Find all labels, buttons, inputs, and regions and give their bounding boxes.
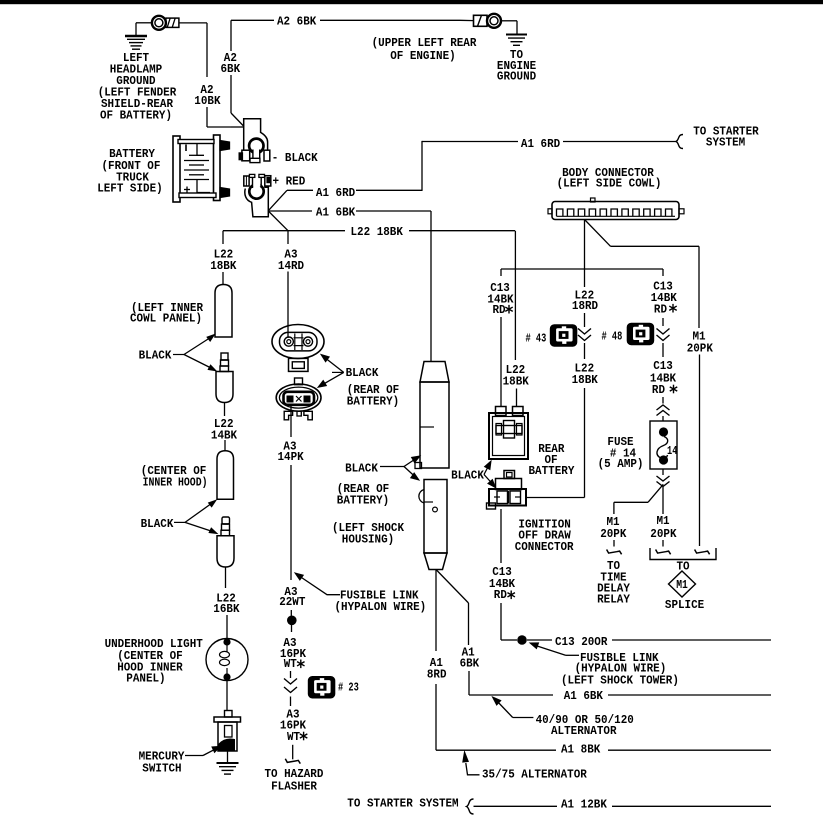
- connector end (mid M1): [656, 550, 671, 555]
- connector: ignition off draw: [487, 471, 527, 510]
- wire C13 14BK RD* (left): [500, 269, 502, 276]
- wire to hazard flasher: [292, 745, 294, 760]
- wire A1 6BK (alternator): [469, 694, 771, 696]
- wire below fuse: [662, 469, 664, 475]
- label A2 6BK: [277, 15, 317, 29]
- label BLACK (cowl): [139, 349, 184, 363]
- label FUSIBLE LINK (HYPALON WIRE) (LEFT SHOCK TOWER): [561, 651, 679, 688]
- arrow to capsule 1: [184, 335, 215, 355]
- label L22 16BK: [213, 592, 240, 617]
- wire L22 18RD: [584, 220, 586, 288]
- label TO (splice): [677, 560, 690, 574]
- label A2 6BK: [221, 51, 241, 76]
- svg-text:(HYPALON WIRE): (HYPALON WIRE): [335, 600, 427, 614]
- label BLACK (hood): [141, 517, 185, 531]
- svg-text:# 43: # 43: [526, 332, 547, 346]
- arrow to bullet 2: [185, 522, 217, 533]
- svg-text:(LEFT SIDE COWL): (LEFT SIDE COWL): [557, 177, 662, 191]
- arrow to upper oval: [321, 355, 344, 373]
- battery B1 (front of truck left side): [173, 135, 230, 202]
- wire cross link: [501, 268, 663, 270]
- label (LEFT INNER COWL PANEL): [130, 301, 204, 326]
- svg-text:RD: RD: [654, 303, 667, 317]
- svg-text:TO STARTER SYSTEM: TO STARTER SYSTEM: [347, 797, 458, 811]
- wire A3 14RD: [287, 231, 289, 338]
- bullet connector (hood): [217, 517, 234, 567]
- svg-text:10BK: 10BK: [194, 94, 221, 108]
- svg-text:OF ENGINE): OF ENGINE): [390, 49, 456, 63]
- connector: body connector (left side cowl): [548, 198, 684, 220]
- wire L22 18BK mid segs: [526, 313, 585, 498]
- label #23: [338, 681, 359, 695]
- label A3 22WT: [279, 585, 305, 609]
- wire to fuse: [662, 397, 664, 404]
- wire L22 18BK (main): [223, 211, 515, 231]
- svg-text:A1 6BK: A1 6BK: [564, 689, 604, 703]
- svg-text:18RD: 18RD: [572, 299, 598, 313]
- grommet #48: [627, 323, 654, 345]
- switch: mercury switch: [214, 711, 241, 752]
- svg-text:A1 6RD: A1 6RD: [316, 186, 355, 200]
- ground: mercury switch: [217, 763, 239, 774]
- svg-text:INNER HOOD): INNER HOOD): [143, 476, 208, 490]
- svg-text:# 23: # 23: [338, 681, 359, 695]
- svg-text:BLACK: BLACK: [139, 349, 173, 363]
- label A3 16PK WT* (2): [280, 708, 307, 745]
- label TO TIME DELAY RELAY: [597, 559, 631, 607]
- wire stub (left M1): [613, 540, 615, 547]
- arrow fusible link C13: [530, 643, 579, 655]
- wire M1 20PK feed: [585, 220, 700, 329]
- label FUSE # 14 (5 AMP): [598, 435, 644, 471]
- inline connector below fuse: [657, 476, 670, 487]
- ground: engine ground: [506, 35, 527, 46]
- wire C13 14BK RD* (ignition): [500, 509, 502, 563]
- connector: black 2-way (rear of battery) upper: [272, 325, 324, 372]
- wire L22 18BK (x=515): [514, 231, 516, 360]
- wire A3 (to junction): [290, 465, 292, 580]
- wire L22 16BK: [225, 567, 227, 588]
- wire A1 12BK: [474, 805, 772, 807]
- label (LEFT SHOCK HOUSING): [332, 521, 405, 547]
- label L22 14BK: [211, 417, 238, 443]
- label + RED: [273, 174, 306, 188]
- page top border: [0, 0, 823, 4]
- svg-text:PANEL): PANEL): [126, 672, 165, 686]
- label C13 20OR: [555, 635, 608, 649]
- svg-text:14: 14: [667, 444, 677, 458]
- arrow to rear-of-battery connector: [484, 461, 491, 475]
- lamp: underhood light: [206, 638, 248, 680]
- wire to switch ground: [227, 751, 229, 763]
- svg-text:18BK: 18BK: [503, 375, 530, 389]
- svg-text:18BK: 18BK: [572, 373, 599, 387]
- grommet #23: [308, 677, 335, 699]
- label (REAR OF BATTERY): [347, 383, 399, 409]
- svg-text:HOUSING): HOUSING): [342, 533, 394, 547]
- label A3 16PK WT*: [280, 636, 307, 671]
- grommet #43: [550, 325, 577, 347]
- wire L22 14BK: [224, 403, 226, 417]
- splice M1 diamond: [669, 571, 696, 597]
- arrow fusible link A3: [295, 573, 340, 595]
- wire down to connector: [500, 317, 502, 407]
- wire stub (mid M1): [662, 540, 664, 547]
- svg-text:6BK: 6BK: [221, 62, 241, 76]
- arrow 40/90 alternator: [493, 697, 534, 718]
- svg-text:20PK: 20PK: [687, 342, 714, 356]
- label - BLACK: [272, 151, 319, 165]
- svg-text:16BK: 16BK: [213, 602, 240, 616]
- wire into connector: [516, 389, 518, 408]
- label A1 6RD: [316, 186, 355, 200]
- label M1 20PK (right): [687, 330, 714, 356]
- svg-text:BLACK: BLACK: [345, 462, 379, 476]
- wire C13 20OR: [527, 639, 771, 641]
- svg-text:+ RED: + RED: [273, 174, 306, 188]
- svg-text:14PK: 14PK: [278, 450, 305, 464]
- ring terminal: left headlamp ground lug: [152, 16, 179, 30]
- label (REAR OF BATTERY) shock: [337, 482, 389, 508]
- label M1 20PK (left): [600, 515, 627, 541]
- bullet connector (cowl): [216, 353, 233, 403]
- label L22 18RD: [572, 289, 598, 314]
- wire A1 6BK: [268, 211, 431, 361]
- arrow to lower oval: [318, 372, 344, 387]
- connector end (M1 right): [695, 550, 710, 555]
- wire A2 6BK (to battery clamp): [231, 20, 244, 126]
- svg-text:# 48: # 48: [602, 330, 623, 344]
- label A1 6RD (starter): [521, 137, 560, 151]
- arrow to mercury switch: [185, 746, 221, 755]
- svg-text:LEFT SIDE): LEFT SIDE): [97, 182, 163, 196]
- inline connector (L22): [578, 329, 591, 341]
- wire to mercury switch: [226, 681, 228, 711]
- wire L22 18BK to cowl connector: [222, 231, 224, 285]
- fusible link sleeve (lower): [419, 480, 447, 570]
- label BLACK (connectors): [451, 469, 485, 483]
- svg-text:BATTERY): BATTERY): [347, 394, 399, 408]
- wire A2 10BK: [179, 23, 244, 127]
- svg-text:A1 12BK: A1 12BK: [561, 798, 608, 812]
- svg-text:OF BATTERY): OF BATTERY): [100, 109, 172, 123]
- svg-text:SWITCH: SWITCH: [142, 762, 181, 776]
- label REAR OF BATTERY: [529, 442, 576, 478]
- wire to engine ground: [501, 21, 517, 34]
- svg-text:RD: RD: [652, 383, 665, 397]
- arrow to ignition connector: [484, 475, 496, 488]
- label TO STARTER SYSTEM: [693, 125, 759, 150]
- label TO ENGINE GROUND: [497, 48, 536, 84]
- wire A1 6BK (alt): [436, 570, 469, 696]
- connector end (left M1): [607, 550, 622, 555]
- connector: center of inner hood (capsule): [217, 451, 234, 500]
- wire C13 to splice: [501, 603, 517, 640]
- arrow to sleeve upper: [404, 456, 420, 467]
- label A1 12BK: [561, 798, 608, 812]
- svg-text:FLASHER: FLASHER: [271, 780, 318, 794]
- ring terminal: engine ground lug: [474, 14, 502, 28]
- svg-text:6BK: 6BK: [460, 657, 480, 671]
- svg-text:M1: M1: [676, 578, 688, 592]
- wire C13 right segs: [662, 269, 664, 357]
- wire A3 14PK: [290, 404, 292, 437]
- label (CENTER OF INNER HOOD): [141, 464, 208, 490]
- label A1 6BK (alt): [460, 646, 480, 671]
- svg-text:20PK: 20PK: [600, 527, 627, 541]
- svg-text:A2 6BK: A2 6BK: [277, 15, 317, 29]
- svg-text:(LEFT SHOCK TOWER): (LEFT SHOCK TOWER): [561, 674, 679, 688]
- svg-text:M1: M1: [657, 514, 670, 528]
- wire stub below A3 connector: [290, 697, 292, 707]
- wire into fuse: [662, 416, 664, 421]
- connector: black 2-way (rear of battery) lower: [276, 378, 321, 420]
- svg-text:ALTERNATOR: ALTERNATOR: [551, 724, 617, 738]
- svg-text:A1 6RD: A1 6RD: [521, 137, 560, 151]
- label M1 20PK (mid): [650, 514, 677, 541]
- wire A2 6BK (to engine ground): [231, 19, 474, 21]
- inline connector (A3): [284, 679, 297, 693]
- svg-text:SYSTEM: SYSTEM: [706, 136, 745, 150]
- label C13 14BK RD* (right): [651, 280, 678, 317]
- label SPLICE: [665, 598, 704, 612]
- label TO STARTER SYSTEM (bottom): [347, 797, 458, 811]
- label (UPPER LEFT REAR OF ENGINE): [372, 36, 478, 63]
- wire A1 6RD: [268, 141, 677, 211]
- inline connector above fuse: [657, 405, 670, 416]
- svg-text:CONNECTOR: CONNECTOR: [515, 540, 575, 554]
- svg-text:C13 20OR: C13 20OR: [555, 635, 608, 649]
- label IGNITION OFF DRAW CONNECTOR: [515, 518, 575, 555]
- label M1 (diamond): [676, 578, 688, 592]
- label L22 18BK: [351, 225, 404, 239]
- wire stub above A3 connector: [290, 671, 292, 678]
- label C13 14BK RD* (ignition): [489, 565, 516, 602]
- svg-text:RD: RD: [494, 588, 507, 602]
- arrow to sleeve lower: [404, 467, 419, 481]
- label A1 6BK: [316, 206, 356, 220]
- wire A3 16PK WT*: [291, 625, 293, 632]
- svg-text:BATTERY): BATTERY): [337, 494, 389, 508]
- ground: left headlamp: [125, 36, 147, 49]
- svg-text:WT: WT: [287, 730, 300, 744]
- wire A1 8BK: [436, 749, 771, 751]
- label BLACK (shock): [345, 462, 404, 476]
- label 40/90 OR 50/120 ALTERNATOR: [536, 713, 634, 738]
- label 35/75 ALTERNATOR: [482, 768, 588, 782]
- label TO HAZARD FLASHER: [265, 767, 324, 794]
- label L22 18BK: [210, 248, 237, 274]
- svg-text:BLACK: BLACK: [451, 469, 485, 483]
- label C13 14BK RD* (right2): [650, 359, 677, 397]
- svg-text:35/75 ALTERNATOR: 35/75 ALTERNATOR: [482, 768, 588, 782]
- label LEFT HEADLAMP GROUND: [98, 51, 177, 123]
- label A3 14RD: [278, 248, 304, 274]
- label BATTERY (FRONT OF TRUCK LEFT SIDE): [97, 147, 163, 196]
- arrow to bullet 1: [184, 355, 216, 371]
- svg-text:8RD: 8RD: [427, 668, 447, 682]
- connector: left inner cowl panel (capsule): [215, 285, 232, 338]
- label MERCURY SWITCH: [139, 750, 186, 776]
- wire branch to time delay relay: [614, 484, 663, 514]
- fuse F14 (5 amp): [650, 421, 677, 469]
- svg-text:GROUND: GROUND: [497, 70, 536, 84]
- svg-text:SPLICE: SPLICE: [665, 598, 704, 612]
- label A1 8RD: [427, 656, 447, 682]
- svg-text:A1 6BK: A1 6BK: [316, 206, 356, 220]
- wire to headlamp ground: [136, 23, 152, 36]
- svg-text:14RD: 14RD: [278, 259, 304, 273]
- connector: rear of battery (C13/L22): [489, 407, 528, 460]
- wire to hood capsule: [224, 440, 226, 451]
- wire A1 8RD: [435, 570, 437, 751]
- wire to underhood light: [226, 615, 228, 639]
- svg-text:COWL PANEL): COWL PANEL): [130, 312, 202, 326]
- svg-text:RELAY: RELAY: [597, 593, 631, 607]
- svg-text:RD: RD: [493, 303, 506, 317]
- label C13 14BK RD* (left): [487, 281, 514, 317]
- label L22 18BK (col): [503, 363, 530, 389]
- label A2 10BK: [194, 83, 221, 108]
- svg-text:22WT: 22WT: [279, 595, 305, 609]
- svg-text:A1 8BK: A1 8BK: [561, 743, 601, 757]
- fusible link sleeve (upper): [415, 362, 449, 469]
- label FUSIBLE LINK (HYPALON WIRE) (A3): [335, 589, 427, 614]
- label BLACK (rear of battery): [332, 366, 379, 380]
- label A1 6BK (alternator): [564, 689, 604, 703]
- svg-text:WT: WT: [284, 657, 297, 671]
- wire M1 20PK down: [699, 355, 701, 547]
- svg-text:BATTERY: BATTERY: [529, 464, 576, 478]
- svg-text:(UPPER LEFT REAR: (UPPER LEFT REAR: [372, 36, 478, 50]
- junction splice dot 2: [287, 616, 297, 626]
- arrow 35/75 alternator: [463, 752, 480, 775]
- svg-text:BLACK: BLACK: [141, 517, 175, 531]
- svg-text:18BK: 18BK: [210, 259, 237, 273]
- brace starter system (bottom): [467, 799, 474, 814]
- brace to starter system: [676, 135, 683, 149]
- arrow to capsule 2: [185, 500, 216, 522]
- wire A3 to 2nd splice: [290, 610, 292, 616]
- wire fuse output: [662, 487, 664, 514]
- bracket to M1 splice: [650, 548, 716, 560]
- inline connector (C13 right): [657, 329, 670, 341]
- battery negative terminal clamp: [239, 119, 270, 163]
- label L22 18BK (mid): [572, 362, 599, 388]
- label A1 8BK: [561, 743, 601, 757]
- svg-text:20PK: 20PK: [650, 527, 677, 541]
- label 14 (fuse): [667, 444, 677, 458]
- svg-text:- BLACK: - BLACK: [272, 151, 319, 165]
- junction dot C13 20OR: [517, 635, 527, 645]
- label BODY CONNECTOR (LEFT SIDE COWL): [557, 166, 662, 191]
- label UNDERHOOD LIGHT (CENTER OF HOOD INNER PANEL): [105, 637, 203, 686]
- label A3 14PK: [278, 440, 305, 465]
- battery positive terminal clamp: [244, 174, 271, 216]
- svg-text:(5 AMP): (5 AMP): [598, 457, 644, 471]
- svg-text:L22 18BK: L22 18BK: [351, 225, 404, 239]
- label #48: [602, 330, 623, 344]
- label #43: [526, 332, 547, 346]
- connector end to hazard flasher: [285, 759, 300, 764]
- svg-text:BLACK: BLACK: [346, 366, 380, 380]
